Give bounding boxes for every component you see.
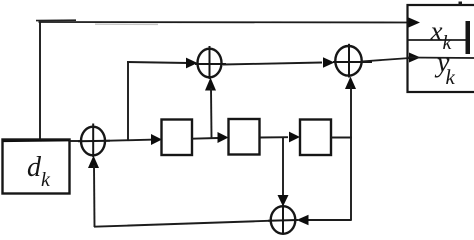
wire: register D1 to register D2	[192, 137, 218, 140]
input box d_k	[3, 140, 70, 194]
wire: adder A3 output to output box (y_k)	[361, 58, 410, 62]
wire: adder A1 output to register D1	[104, 140, 155, 141]
wire: feedback riser below A1	[93, 165, 96, 227]
arrowhead into register D3	[289, 132, 300, 143]
arrowhead into output box (x_k input)	[408, 17, 420, 27]
arrowhead into adder A3 left	[323, 57, 335, 68]
wire: tap down from D2-D3 wire to adder A4	[282, 138, 284, 199]
label d_k	[27, 152, 51, 191]
wire: d_k box to adder A1	[69, 140, 82, 142]
wire: tap riser from D1-D2 wire up to adder A2	[210, 88, 213, 138]
output box y_k wire line	[407, 57, 474, 60]
wire: feedback riser down from D3 output node to A4 level	[350, 137, 352, 221]
arrowhead: tap into adder A4 top	[278, 195, 289, 207]
XOR adder A2 (upper-middle)	[195, 46, 226, 79]
XOR adder A3 (upper-right)	[333, 44, 372, 78]
wire: adder A2 to adder A3	[223, 63, 322, 65]
wire: upper branch horizontal to adder A2	[127, 62, 188, 63]
wire: register D3 output to feedback riser node	[331, 137, 352, 139]
wire: register D2 to register D3	[260, 136, 288, 138]
label y_k	[434, 48, 456, 90]
register D1 (first shift register)	[162, 120, 193, 156]
arrowhead into register D1	[151, 134, 162, 145]
wire: vertical drop from top line down to d_k box	[39, 22, 41, 140]
svg-text:k: k	[446, 65, 456, 89]
XOR adder A4 (bottom feedback adder)	[268, 204, 298, 234]
arrowhead: tap into adder A3 bottom	[345, 77, 356, 90]
arrowhead into register D2	[218, 132, 229, 143]
arrowhead: feedback into adder A1 bottom	[88, 156, 99, 169]
arrowhead into output box (y_k input)	[409, 53, 421, 63]
arrowhead: tap into adder A2 bottom	[205, 78, 216, 91]
wire: branch riser up from A1 output node to top adder A2	[127, 62, 129, 141]
output box right inner bar	[466, 21, 471, 54]
svg-text:x: x	[430, 16, 443, 46]
tick on output box top border	[459, 2, 463, 6]
output box inner line under x_k	[407, 39, 470, 41]
wire: horizontal from riser into adder A4 right	[306, 219, 352, 221]
label x_k	[430, 16, 453, 54]
register D2 (second shift register)	[229, 119, 260, 155]
svg-text:d: d	[27, 152, 42, 183]
XOR adder A1 (input adder)	[78, 124, 110, 158]
arrowhead into adder A4 right side	[297, 215, 309, 225]
output box (x_k / y_k)	[408, 5, 474, 92]
wire: bottom feedback line from adder A4 to A1 riser	[94, 221, 272, 227]
register D3 (third shift register)	[300, 120, 331, 156]
wire: systematic top line from node A to output box	[36, 20, 412, 24]
arrowhead into adder A2 left	[186, 58, 198, 69]
wire: riser from register D3 output up to adder A3	[350, 87, 352, 139]
svg-text:k: k	[41, 169, 51, 191]
